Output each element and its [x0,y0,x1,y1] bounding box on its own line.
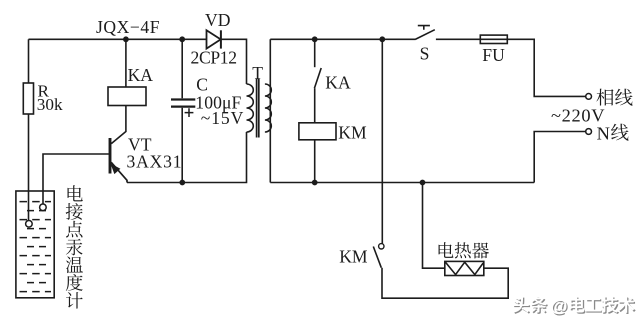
node junction dot KM coil bottom [312,180,318,186]
svg-text:S: S [420,44,430,64]
wire: KM contact branch (crosses bottom rail) [381,39,383,243]
contact KM blade [373,247,381,268]
label 相线 [596,89,613,106]
wire: KA coil to collector of VT [111,106,126,144]
wire: KA contact branch upper lead [314,39,316,67]
wire: KA contact to KM coil [314,88,316,123]
svg-text:@: @ [551,296,568,316]
wire: N terminal to bottom rail [534,132,586,183]
wire: switch to fuse [436,38,480,40]
capacitor C plates [171,100,195,107]
wire: top rail left segment (node JQX input) [29,38,207,40]
wire: KA coil branch from top rail [125,39,127,87]
contact KM fixed terminal circle [379,244,384,249]
svg-text:KM: KM [339,247,368,267]
node junction dot capacitor bottom [179,180,185,186]
svg-text:JQX−4F: JQX−4F [96,17,160,37]
transformer T primary winding [247,84,254,132]
terminal circle N line [586,129,592,135]
wire: bottom rail secondary [270,182,534,184]
node junction dot KA contact branch [312,36,318,42]
relay coil KA [108,87,146,106]
transistor VT 3AX31 [110,138,127,183]
svg-text:KA: KA [128,65,154,85]
switch S [415,26,435,40]
svg-text:3AX31: 3AX31 [127,152,182,172]
transformer T secondary winding [265,84,271,132]
electric-contact mercury thermometer body [16,191,54,298]
terminal circle phase line [586,94,592,100]
node junction dot heater branch [420,180,426,186]
resistor R 30k [23,83,33,114]
svg-text:FU: FU [482,45,505,65]
wire: KM contact to heater bottom loop [382,268,508,299]
polarity + mark of C [185,108,194,117]
thermometer upper contact circle [40,204,47,211]
svg-text:30k: 30k [37,95,63,114]
wire: fuse to phase terminal [507,39,586,96]
watermark 头条@电工技术 [514,298,530,314]
wire: resistor to thermometer lower contact [28,114,30,220]
svg-text:T: T [252,63,263,83]
svg-text:~15V: ~15V [201,108,244,128]
wire: left column from top rail down to resistor [28,39,30,83]
diode VD [207,30,221,48]
wire: KM coil to bottom rail [314,140,316,183]
thermometer level dashes [20,201,52,203]
svg-text:KA: KA [325,73,351,93]
label 电热器 [439,242,454,258]
label 电接点汞温度计 [68,185,83,201]
svg-text:VD: VD [205,10,230,30]
svg-text:C: C [196,75,208,95]
capacitor C leads [181,39,183,182]
svg-text:N: N [597,123,610,143]
wire: base of VT to thermometer upper contact [43,154,109,204]
wire: secondary right conductor [269,39,271,182]
contactor coil KM [299,123,336,140]
fuse FU [480,35,507,43]
svg-text:KM: KM [338,122,367,142]
node junction dot KM contact branch [379,36,385,42]
emitter arrow of VT (PNP, pointing into base) [110,163,120,174]
wire: bottom rail of primary circuit (emitter line) [127,132,247,183]
heater element 电热器 [445,261,484,275]
wire: diode cathode to transformer primary top [221,39,247,84]
node junction dot at KA branch [123,36,129,42]
node junction dot at C branch [179,36,185,42]
transformer core [257,79,259,138]
wire: top rail secondary segment to switch [270,38,415,40]
contact KA (normally open) [314,68,321,88]
wire: heater branch from rail [423,183,445,269]
thermometer lower contact circle [26,221,33,228]
svg-text:2CP12: 2CP12 [191,48,238,68]
